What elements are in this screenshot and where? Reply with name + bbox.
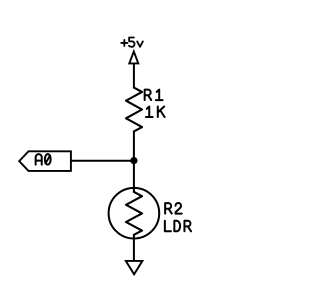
wire LDR to ground xyxy=(133,235,135,261)
label A0 xyxy=(36,154,51,165)
junction dot xyxy=(130,157,137,164)
wire R1 to LDR xyxy=(133,131,135,192)
power symbol +5V (up arrow) xyxy=(129,51,138,63)
value 1K xyxy=(146,107,165,118)
net label +5v xyxy=(121,38,143,47)
resistor R1 xyxy=(126,88,142,132)
photoresistor R2 circle xyxy=(109,188,160,239)
node tag A0 xyxy=(19,151,71,171)
wire A0 to junction xyxy=(71,160,134,162)
wire power to R1 xyxy=(133,63,135,87)
label R2 xyxy=(165,203,182,214)
photoresistor R2 zigzag xyxy=(126,192,142,235)
label R1 xyxy=(145,90,163,101)
value LDR xyxy=(165,221,191,232)
ground xyxy=(126,261,143,274)
